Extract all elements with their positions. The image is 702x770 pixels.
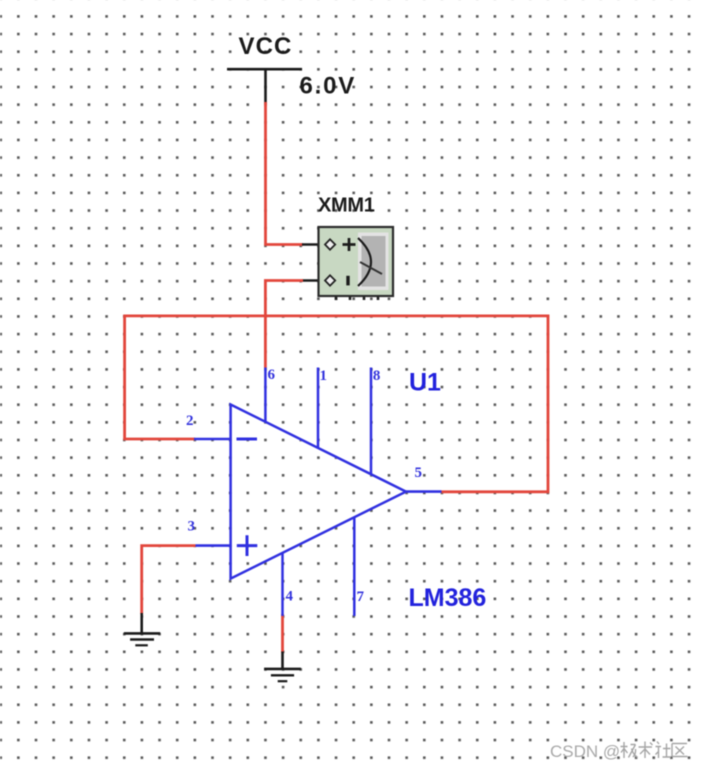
svg-text:CSDN @: CSDN @ bbox=[550, 742, 620, 761]
svg-text:6.0V: 6.0V bbox=[300, 73, 357, 100]
svg-text:2: 2 bbox=[186, 413, 194, 429]
svg-text:LM386: LM386 bbox=[409, 584, 487, 612]
wire XMM1 - to pin 6 bbox=[265, 281, 303, 369]
svg-text:8: 8 bbox=[373, 368, 381, 384]
pin 4 lead bbox=[281, 553, 284, 616]
pin 3 label bbox=[188, 519, 196, 535]
pin 2 label bbox=[186, 413, 194, 429]
pin 3 lead bbox=[196, 544, 232, 547]
pin 5 lead bbox=[406, 490, 442, 493]
wire VCC to XMM1 + bbox=[266, 102, 304, 245]
pin 1 lead bbox=[317, 368, 320, 449]
pin 7 label bbox=[357, 589, 365, 605]
part value LM386 bbox=[409, 584, 487, 612]
svg-text:VCC: VCC bbox=[239, 33, 293, 60]
pin 7 lead bbox=[353, 518, 356, 616]
pin 5 label bbox=[415, 465, 423, 481]
pin 6 label bbox=[268, 367, 276, 383]
value label 6.0V bbox=[300, 73, 357, 100]
ground left bbox=[124, 613, 160, 645]
pin 8 lead bbox=[370, 368, 373, 475]
svg-text:6: 6 bbox=[268, 367, 276, 383]
svg-text:U1: U1 bbox=[409, 369, 441, 397]
power VCC bbox=[227, 33, 302, 104]
svg-text:7: 7 bbox=[357, 589, 365, 605]
triangle body bbox=[231, 405, 406, 579]
svg-text:XMM1: XMM1 bbox=[318, 195, 375, 217]
pin 2 lead bbox=[194, 438, 231, 441]
pin 4 label bbox=[286, 589, 294, 605]
wire feedback loop pin2 to output bbox=[125, 316, 548, 492]
op-amp U1 LM386 bbox=[194, 368, 442, 617]
reference designator U1 bbox=[409, 369, 441, 397]
inverting input marker bbox=[237, 438, 258, 441]
svg-text:5: 5 bbox=[415, 465, 423, 481]
svg-text:4: 4 bbox=[286, 589, 294, 605]
pin 8 label bbox=[373, 368, 381, 384]
wire pin 4 to ground bbox=[281, 614, 284, 653]
pin 1 label bbox=[320, 368, 328, 384]
svg-text:3: 3 bbox=[188, 519, 196, 535]
ground bottom bbox=[264, 652, 301, 682]
svg-text:1: 1 bbox=[320, 368, 328, 384]
wire pin 3 to ground bbox=[142, 546, 196, 614]
non-inverting input marker bbox=[237, 535, 257, 556]
multimeter XMM1 bbox=[302, 195, 393, 301]
pin 6 lead bbox=[264, 368, 267, 422]
